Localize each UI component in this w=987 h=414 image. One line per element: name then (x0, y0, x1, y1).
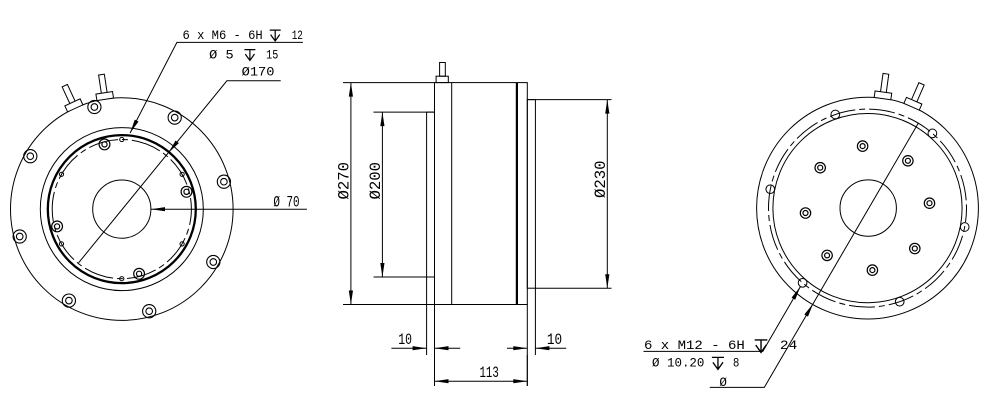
rear socket screw at 184.5 deg (800, 208, 810, 218)
rear cover D230 x10 (527, 100, 535, 289)
inner socket screw at 15 deg (181, 186, 192, 197)
terminal stud A right view (874, 73, 894, 100)
M12 tapped hole at 289 deg (895, 297, 904, 306)
rim bolt hole at 60 deg (168, 111, 181, 124)
terminal stud A left view (57, 82, 83, 112)
M6 tapped hole at 330 deg (180, 242, 184, 246)
D230 dimension line (606, 100, 608, 289)
svg-text:Ø 10.20: Ø 10.20 (652, 356, 704, 370)
10 right extension lines (527, 288, 535, 386)
M12 tapped hole at 169 deg (766, 185, 775, 194)
rim bolt hole at 195 deg (13, 230, 26, 243)
leader M12 note (644, 287, 801, 352)
M6 tapped hole at 210 deg (59, 242, 63, 246)
rim bolt hole at 15 deg (217, 175, 230, 188)
internal joint line (451, 83, 453, 305)
rear socket screw at 49.5 deg (903, 156, 913, 166)
inner socket screw at 195 deg (52, 221, 63, 232)
113 dimension line (435, 380, 528, 382)
rear socket screw at 229.5 deg (822, 250, 832, 260)
M12 tapped hole at 229 deg (798, 278, 807, 287)
terminal stud B right view (904, 80, 929, 110)
svg-text:Ø170: Ø170 (242, 65, 275, 79)
svg-text:12: 12 (292, 29, 303, 43)
leader line D170 with centerline diagonal (79, 81, 281, 263)
front disc D200 x10 (427, 112, 435, 277)
M6 tapped hole at 30 deg (180, 172, 184, 176)
leader and centerline diagonal right view (710, 123, 919, 387)
center bore D70 (93, 180, 151, 238)
M12 tapped hole at 49 deg (928, 129, 937, 138)
10 left extension lines (427, 277, 435, 355)
svg-text:6 x M12 - 6H: 6 x M12 - 6H (644, 339, 745, 353)
M6 tapped hole at 150 deg (59, 172, 63, 176)
svg-text:Ø 5: Ø 5 (209, 48, 234, 62)
left front view outer circle (flange OD 270) (11, 98, 234, 321)
D230 extension lines (527, 100, 611, 289)
D200 dimension line (381, 112, 383, 277)
rear socket screw at 319.5 deg (910, 243, 920, 253)
M12 tapped hole at 349 deg (960, 223, 969, 232)
terminal stud on top of middle view (440, 63, 446, 77)
svg-text:24: 24 (780, 339, 797, 353)
inner socket screw at 285 deg (134, 268, 145, 279)
rim bolt hole at 330 deg (207, 255, 220, 268)
internal thick line (end bell joint) (516, 83, 518, 305)
leader line M6 note (130, 42, 303, 133)
leader line D70 (151, 208, 307, 210)
rim bolt hole at 105 deg (88, 100, 101, 113)
svg-text:113: 113 (480, 364, 499, 382)
middle section view body D270 (435, 83, 528, 305)
M12 tapped hole at 109 deg (831, 110, 840, 119)
svg-text:Ø 70: Ø 70 (273, 194, 299, 212)
bolt circle D170 dash-dot (52, 140, 191, 279)
M6 tapped hole at 90 deg (120, 137, 124, 141)
rear cover circle D230 (773, 114, 962, 303)
svg-text:6 x M6 - 6H: 6 x M6 - 6H (183, 29, 263, 43)
svg-text:15: 15 (266, 48, 278, 62)
D270 dimension line (350, 83, 352, 305)
rim bolt hole at 240 deg (62, 294, 75, 307)
rim bolt hole at 285 deg (143, 305, 156, 318)
right rear view outer circle D270 (757, 97, 979, 319)
rear socket screw at 274.5 deg (867, 265, 877, 275)
D270 extension lines (343, 83, 435, 305)
inner socket screw at 105 deg (99, 139, 110, 150)
svg-text:Ø230: Ø230 (592, 161, 610, 199)
rim bolt hole at 150 deg (24, 150, 37, 163)
svg-text:8: 8 (733, 356, 740, 370)
rear socket screw at 139.5 deg (815, 163, 825, 173)
rear socket screw at 94.5 deg (857, 141, 867, 151)
M6 tapped hole at 270 deg (120, 277, 124, 281)
front spigot circle D200 (40, 128, 203, 291)
svg-text:10: 10 (547, 331, 562, 349)
terminal stud B left view (93, 73, 113, 100)
front face thick circle D180 (48, 135, 196, 283)
D200 extension lines (374, 112, 435, 277)
bolt circle D240 dash-dot (769, 109, 967, 307)
svg-text:Ø200: Ø200 (367, 162, 385, 200)
center bore D70 rear (840, 180, 896, 236)
rear socket screw at 4.5 deg (924, 198, 934, 208)
10 right dimension (507, 347, 566, 349)
svg-text:Ø: Ø (719, 376, 727, 390)
svg-text:Ø270: Ø270 (335, 162, 353, 200)
113 extension lines (435, 305, 528, 387)
10 left dimension (391, 347, 460, 349)
svg-text:10: 10 (398, 331, 412, 349)
